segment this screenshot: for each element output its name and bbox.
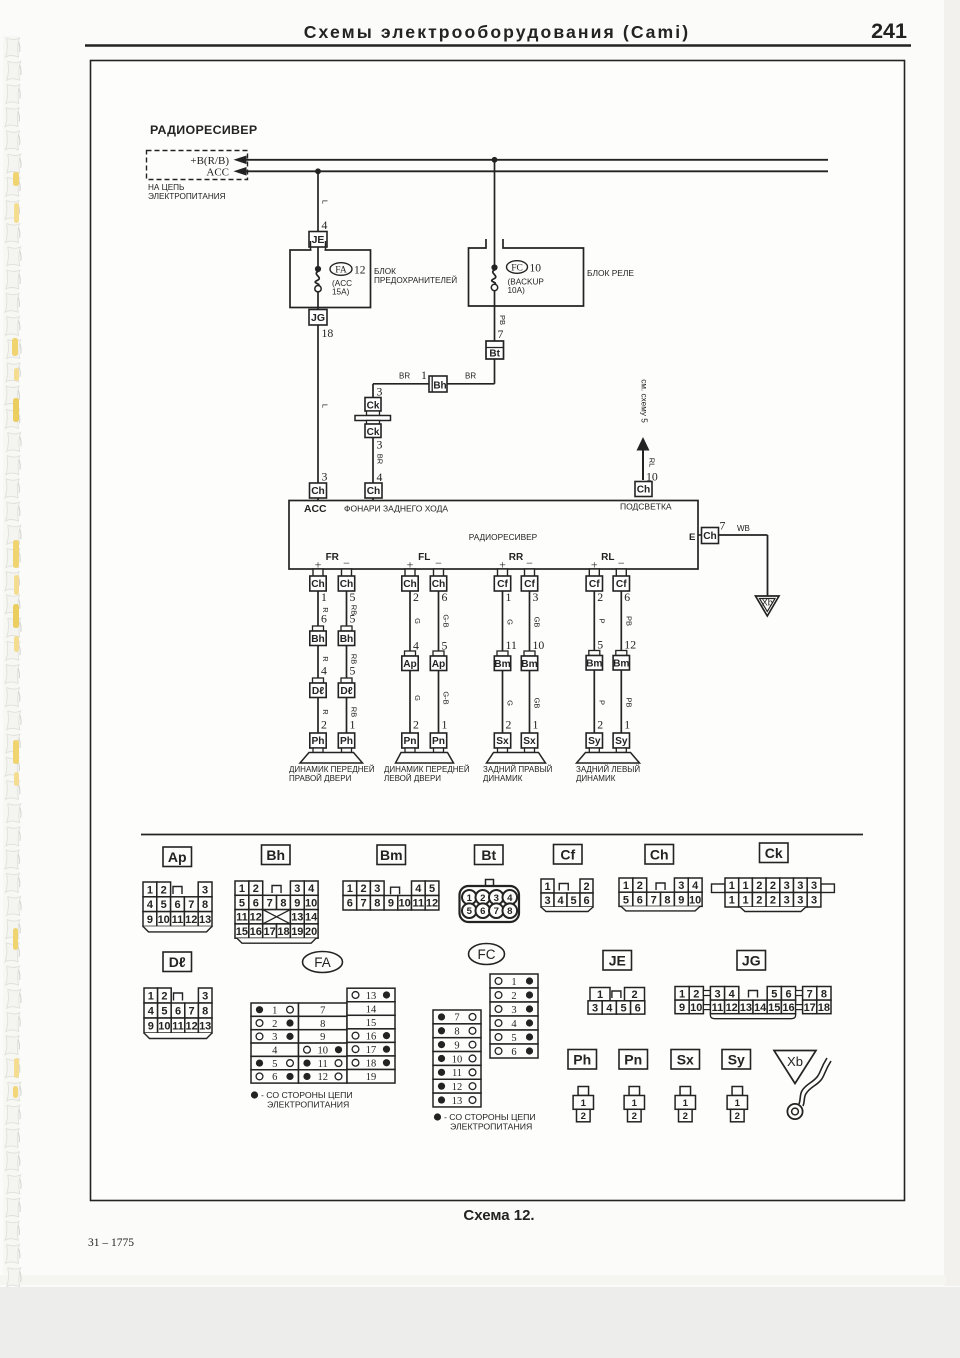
- connector chart Ch label: [645, 845, 674, 865]
- svg-text:8: 8: [507, 906, 513, 917]
- svg-text:8: 8: [454, 1027, 459, 1038]
- svg-text:1: 1: [623, 880, 629, 892]
- svg-text:1: 1: [679, 988, 685, 1000]
- svg-text:7: 7: [720, 519, 726, 533]
- label speaker FR: [289, 765, 375, 783]
- svg-text:3: 3: [374, 883, 380, 895]
- svg-text:1: 1: [735, 1098, 741, 1109]
- svg-text:ФОНАРИ ЗАДНЕГО ХОДА: ФОНАРИ ЗАДНЕГО ХОДА: [344, 504, 448, 514]
- svg-text:BR: BR: [399, 372, 410, 381]
- connector chart Bt label: [475, 845, 504, 865]
- svg-text:3: 3: [784, 895, 790, 907]
- channel FL wires: [410, 569, 439, 753]
- svg-text:2: 2: [597, 718, 603, 732]
- label ACC 15A: [332, 279, 352, 297]
- svg-text:11: 11: [452, 1068, 462, 1079]
- pin 4 of Ch backup: [377, 470, 383, 484]
- svg-text:PB: PB: [498, 315, 507, 325]
- svg-text:Sx: Sx: [496, 736, 509, 747]
- fuse chart FC grid: [433, 974, 538, 1107]
- channel FR wires: [318, 569, 347, 753]
- svg-text:11: 11: [236, 912, 248, 924]
- svg-text:RL: RL: [648, 458, 657, 468]
- svg-text:12: 12: [452, 1082, 463, 1093]
- connector chart Bm label: [377, 845, 406, 865]
- svg-text:3: 3: [811, 880, 817, 892]
- svg-text:2: 2: [583, 881, 589, 893]
- svg-text:2: 2: [756, 880, 762, 892]
- svg-text:JG: JG: [311, 312, 325, 324]
- svg-text:12: 12: [624, 638, 636, 652]
- wire ground run: [719, 535, 768, 596]
- svg-text:3: 3: [533, 590, 539, 604]
- svg-text:1: 1: [467, 893, 473, 904]
- svg-text:GB: GB: [533, 617, 542, 628]
- svg-text:3: 3: [494, 893, 499, 904]
- svg-text:18: 18: [277, 926, 289, 938]
- connector chart Bh pin grid: [235, 881, 318, 943]
- label rear lamps: [344, 504, 448, 514]
- pin 18 of JG: [322, 326, 334, 340]
- svg-text:Sy: Sy: [588, 736, 601, 747]
- speaker RL symbol: [577, 753, 640, 764]
- power source dashed box: [147, 151, 248, 180]
- connector chart JG pin grid: [675, 987, 831, 1019]
- pin 1 of Bh: [421, 368, 427, 382]
- wire ACC drop to fuse JE: [317, 171, 319, 232]
- svg-text:FA: FA: [335, 266, 347, 276]
- svg-text:Bh: Bh: [266, 847, 285, 863]
- connector Cf pair at RR output: [494, 569, 537, 591]
- pins 2 1 of Ph FR: [321, 718, 356, 732]
- svg-text:ACC: ACC: [206, 167, 229, 179]
- fuse chart FC label: [469, 944, 505, 965]
- channel FR label: [315, 552, 351, 572]
- svg-text:R: R: [321, 709, 330, 715]
- svg-text:12: 12: [726, 1002, 738, 1014]
- svg-text:10: 10: [452, 1054, 463, 1065]
- connector chart Pn pins: [624, 1087, 644, 1123]
- svg-text:2: 2: [756, 895, 762, 907]
- svg-text:4: 4: [729, 988, 736, 1000]
- header rule: [85, 44, 911, 46]
- svg-text:3: 3: [202, 884, 208, 896]
- svg-text:6: 6: [635, 1002, 641, 1014]
- label FC 10: [507, 261, 542, 275]
- svg-text:3: 3: [784, 880, 790, 892]
- connector chart Sy label: [722, 1050, 751, 1070]
- svg-text:13: 13: [199, 914, 211, 926]
- wire ACC bus: [234, 167, 829, 176]
- connector Ch pair at FL output: [402, 569, 447, 591]
- svg-text:20: 20: [305, 926, 317, 938]
- wire Bh to Ck: [373, 384, 429, 398]
- label E pin: [689, 532, 695, 543]
- connector JE inline: [309, 232, 327, 248]
- pins 2 1 of Sx RR: [506, 718, 539, 732]
- svg-text:ЭЛЕКТРОПИТАНИЯ: ЭЛЕКТРОПИТАНИЯ: [450, 1122, 532, 1132]
- svg-text:Bh: Bh: [311, 634, 325, 645]
- wire colors R RB FR: [321, 605, 359, 615]
- svg-text:Ph: Ph: [311, 736, 324, 747]
- svg-text:Ap: Ap: [403, 659, 417, 670]
- svg-text:5: 5: [350, 612, 356, 626]
- svg-text:9: 9: [148, 1020, 154, 1032]
- svg-text:6: 6: [480, 906, 485, 917]
- label ACC inside block: [304, 504, 327, 515]
- pin 3 of Ch ACC: [322, 470, 328, 484]
- svg-text:1: 1: [148, 990, 154, 1002]
- svg-text:JE: JE: [312, 234, 325, 246]
- svg-text:−: −: [435, 556, 442, 570]
- svg-text:G: G: [506, 619, 515, 625]
- svg-text:Ch: Ch: [650, 846, 669, 862]
- connector chart JE pin grid: [588, 988, 645, 1015]
- svg-text:Ck: Ck: [367, 401, 380, 412]
- pin 3 upper Ck: [377, 385, 383, 399]
- svg-text:16: 16: [250, 926, 262, 938]
- svg-text:1: 1: [544, 881, 550, 893]
- svg-text:Xb: Xb: [787, 1054, 803, 1069]
- svg-text:Bh: Bh: [340, 634, 354, 645]
- connector chart Pn label: [619, 1050, 648, 1070]
- wire through fuse block: [317, 247, 319, 310]
- svg-text:Bt: Bt: [489, 349, 500, 360]
- svg-text:Bm: Bm: [521, 659, 537, 670]
- connector Ch at illumination output: [635, 482, 652, 497]
- svg-text:8: 8: [664, 894, 670, 906]
- connector Ph pair at speaker FR: [310, 733, 355, 753]
- svg-text:3: 3: [797, 895, 803, 907]
- svg-text:ПРАВОЙ ДВЕРИ: ПРАВОЙ ДВЕРИ: [289, 774, 352, 783]
- svg-text:14: 14: [366, 1004, 377, 1015]
- svg-text:12: 12: [354, 265, 366, 277]
- pins 5 12 of Bm RL: [597, 638, 636, 652]
- svg-text:L: L: [321, 200, 330, 204]
- svg-text:6: 6: [347, 898, 353, 910]
- connector chart Sx pins: [675, 1087, 695, 1123]
- svg-text:2: 2: [631, 989, 637, 1001]
- svg-text:14: 14: [754, 1002, 767, 1014]
- svg-text:1: 1: [581, 1098, 587, 1109]
- svg-text:Схема 12.: Схема 12.: [463, 1207, 534, 1224]
- node ACC branch junction: [315, 168, 321, 174]
- svg-text:10: 10: [690, 1002, 702, 1014]
- svg-text:GB: GB: [533, 698, 542, 709]
- svg-text:10: 10: [530, 263, 542, 275]
- svg-text:3: 3: [272, 1032, 277, 1043]
- svg-text:9: 9: [320, 1032, 325, 1043]
- svg-text:G: G: [413, 695, 422, 701]
- svg-text:8: 8: [821, 988, 827, 1000]
- svg-text:Cf: Cf: [524, 579, 535, 590]
- svg-text:7: 7: [498, 327, 504, 341]
- svg-text:Cf: Cf: [616, 579, 627, 590]
- svg-text:13: 13: [740, 1002, 752, 1014]
- svg-text:10: 10: [318, 1046, 329, 1057]
- pins 2 6 of Cf RL: [597, 590, 630, 604]
- svg-text:2: 2: [272, 1019, 277, 1030]
- svg-text:5: 5: [570, 895, 576, 907]
- svg-text:2: 2: [360, 883, 366, 895]
- pin 7 of Ch ground: [720, 519, 726, 533]
- svg-text:FR: FR: [326, 552, 340, 563]
- svg-text:16: 16: [782, 1002, 794, 1014]
- svg-text:ПРЕДОХРАНИТЕЛЕЙ: ПРЕДОХРАНИТЕЛЕЙ: [374, 274, 457, 285]
- svg-text:3: 3: [714, 988, 720, 1000]
- wire color WB: [737, 524, 750, 533]
- connector chart Bh label: [262, 845, 291, 865]
- fuse chart FA grid: [251, 988, 395, 1083]
- connector Ch pair at FR output: [310, 569, 355, 591]
- svg-text:17: 17: [264, 926, 276, 938]
- svg-text:Dℓ: Dℓ: [340, 686, 352, 697]
- svg-text:4: 4: [692, 880, 699, 892]
- svg-text:3: 3: [811, 895, 817, 907]
- svg-text:2: 2: [321, 718, 327, 732]
- connector Ch at backup input: [365, 483, 382, 498]
- svg-text:RL: RL: [601, 552, 614, 563]
- svg-text:1: 1: [347, 883, 353, 895]
- caption Schema 12: [463, 1207, 534, 1224]
- svg-text:ЗАДНИЙ ЛЕВЫЙ: ЗАДНИЙ ЛЕВЫЙ: [576, 765, 640, 774]
- connector chart Ck label: [760, 843, 789, 863]
- svg-text:Ch: Ch: [367, 486, 381, 497]
- svg-text:18: 18: [818, 1002, 830, 1014]
- connector Sy pair at speaker RL: [586, 733, 629, 753]
- wire color L (lower): [321, 404, 330, 408]
- svg-text:10: 10: [399, 898, 411, 910]
- arrow to schema 5: [637, 437, 650, 480]
- ground chart Xb: [774, 1051, 816, 1084]
- svg-text:5: 5: [161, 899, 167, 911]
- connector Bh inline: [429, 376, 447, 392]
- svg-text:Sy: Sy: [615, 736, 628, 747]
- wire color PB: [498, 315, 507, 325]
- svg-text:ЛЕВОЙ ДВЕРИ: ЛЕВОЙ ДВЕРИ: [384, 774, 441, 783]
- svg-text:1: 1: [729, 880, 735, 892]
- svg-text:Bm: Bm: [380, 847, 403, 863]
- channel RR label: [499, 552, 533, 572]
- svg-text:12: 12: [185, 914, 197, 926]
- svg-text:6: 6: [785, 988, 791, 1000]
- ground Xb: [756, 596, 780, 616]
- svg-text:11: 11: [172, 1020, 184, 1032]
- svg-text:БЛОК РЕЛЕ: БЛОК РЕЛЕ: [587, 268, 634, 278]
- svg-text:Ch: Ch: [311, 486, 325, 497]
- svg-text:см. схему 5: см. схему 5: [640, 379, 649, 423]
- svg-text:16: 16: [366, 1031, 377, 1042]
- svg-text:13: 13: [199, 1020, 211, 1032]
- svg-text:1: 1: [533, 718, 539, 732]
- svg-text:15: 15: [366, 1018, 377, 1029]
- svg-text:G: G: [413, 618, 422, 624]
- svg-text:6: 6: [321, 612, 327, 626]
- svg-text:13: 13: [366, 991, 377, 1002]
- pins 4 5 of Dℓ FR: [321, 664, 356, 678]
- svg-text:1: 1: [511, 977, 516, 988]
- connector Dℓ pair inline FR: [310, 678, 355, 698]
- connector chart Dl label: [163, 952, 192, 972]
- svg-text:ЗАДНИЙ ПРАВЫЙ: ЗАДНИЙ ПРАВЫЙ: [483, 765, 553, 774]
- svg-text:5: 5: [272, 1059, 277, 1070]
- svg-text:4: 4: [511, 1019, 517, 1030]
- svg-text:3: 3: [322, 470, 328, 484]
- connector Ap pair inline FL: [402, 651, 447, 671]
- svg-text:Схемы электрооборудования (Cam: Схемы электрооборудования (Cami): [304, 22, 691, 42]
- svg-text:P: P: [597, 700, 606, 705]
- svg-text:18: 18: [322, 326, 334, 340]
- svg-text:1: 1: [506, 590, 512, 604]
- svg-text:G: G: [506, 700, 515, 706]
- wire +B drop to relay block: [494, 160, 496, 266]
- svg-text:9: 9: [294, 897, 300, 909]
- svg-text:РАДИОРЕСИВЕР: РАДИОРЕСИВЕР: [150, 123, 257, 137]
- svg-text:Ck: Ck: [765, 845, 783, 861]
- svg-text:5: 5: [350, 664, 356, 678]
- svg-text:1: 1: [421, 368, 427, 382]
- svg-text:Cf: Cf: [497, 579, 508, 590]
- svg-text:5: 5: [597, 638, 603, 652]
- svg-text:13: 13: [291, 912, 303, 924]
- svg-text:Ch: Ch: [432, 579, 446, 590]
- svg-text:2: 2: [683, 1111, 688, 1122]
- svg-text:10: 10: [533, 638, 545, 652]
- svg-text:15A): 15A): [332, 288, 350, 297]
- connector chart Ap pin grid: [143, 882, 212, 932]
- svg-text:7: 7: [807, 988, 813, 1000]
- svg-text:JE: JE: [609, 952, 626, 968]
- svg-text:Bm: Bm: [613, 658, 629, 669]
- svg-text:11: 11: [712, 1002, 724, 1014]
- connector Bh pair inline FR: [310, 626, 355, 646]
- wire colors G G-B lower FL: [413, 691, 451, 704]
- svg-text:1: 1: [742, 895, 748, 907]
- svg-text:7: 7: [267, 897, 273, 909]
- svg-text:5: 5: [511, 1033, 516, 1044]
- svg-text:1: 1: [321, 590, 327, 604]
- svg-text:3: 3: [678, 880, 684, 892]
- pin 4 of JE: [322, 218, 328, 232]
- svg-text:4: 4: [507, 893, 513, 904]
- svg-text:ЭЛЕКТРОПИТАНИЯ: ЭЛЕКТРОПИТАНИЯ: [148, 192, 226, 201]
- svg-text:RB: RB: [350, 707, 359, 717]
- connector chart Sy pins: [727, 1087, 747, 1123]
- svg-text:3: 3: [294, 883, 300, 895]
- label see schema 5: [640, 379, 649, 423]
- svg-text:241: 241: [871, 19, 907, 43]
- svg-text:Bm: Bm: [494, 659, 510, 670]
- svg-text:3: 3: [202, 990, 208, 1002]
- diagram frame: [91, 61, 905, 1201]
- wire Bt to Bh: [447, 359, 495, 384]
- svg-text:FC: FC: [511, 264, 523, 274]
- svg-text:8: 8: [202, 1005, 208, 1017]
- svg-text:10: 10: [158, 914, 170, 926]
- wire Ck to radio backup lamps: [372, 438, 374, 502]
- chart separator rule: [141, 834, 863, 836]
- svg-text:6: 6: [253, 897, 259, 909]
- label relay block: [587, 268, 634, 278]
- svg-text:1: 1: [597, 989, 603, 1001]
- svg-text:1: 1: [624, 718, 630, 732]
- svg-text:1: 1: [742, 880, 748, 892]
- svg-text:9: 9: [679, 1002, 685, 1014]
- svg-text:12: 12: [318, 1072, 329, 1083]
- pins 4 5 of Ap FL: [413, 639, 448, 653]
- label ACC: [206, 167, 229, 179]
- svg-text:2: 2: [632, 1111, 637, 1122]
- svg-text:11: 11: [172, 914, 184, 926]
- svg-text:13: 13: [452, 1096, 463, 1107]
- svg-text:7: 7: [189, 1005, 195, 1017]
- svg-text:G-B: G-B: [442, 691, 451, 704]
- svg-text:БЛОК: БЛОК: [374, 267, 396, 276]
- svg-text:Pn: Pn: [624, 1051, 642, 1067]
- svg-text:12: 12: [185, 1020, 197, 1032]
- svg-text:10: 10: [158, 1020, 170, 1032]
- svg-text:E: E: [689, 532, 695, 543]
- connector Pn pair at speaker FL: [402, 733, 447, 753]
- connector chart Bm pin grid: [343, 881, 439, 910]
- connector Sx pair at speaker RR: [494, 733, 537, 753]
- svg-text:6: 6: [583, 895, 589, 907]
- wire colors R RB lower FR: [321, 707, 359, 717]
- svg-text:Ch: Ch: [403, 579, 417, 590]
- svg-text:Xb: Xb: [762, 598, 773, 608]
- pin 10 of Ch illumination: [646, 470, 658, 484]
- node +B branch junction: [492, 157, 498, 163]
- label illumination: [620, 502, 672, 512]
- connector chart JE label: [603, 951, 632, 971]
- svg-text:3: 3: [797, 880, 803, 892]
- relay block box FC: [469, 239, 584, 306]
- svg-text:18: 18: [366, 1059, 377, 1070]
- svg-text:2: 2: [637, 880, 643, 892]
- svg-text:L: L: [321, 404, 330, 408]
- svg-text:Ch: Ch: [637, 485, 651, 496]
- label BACKUP 10A: [508, 278, 545, 296]
- svg-text:G-B: G-B: [442, 614, 451, 627]
- svg-text:5: 5: [771, 988, 777, 1000]
- svg-text:11: 11: [506, 638, 517, 652]
- connector chart Ap label: [163, 847, 192, 867]
- svg-text:ДИНАМИК: ДИНАМИК: [576, 774, 616, 783]
- svg-text:3: 3: [377, 385, 383, 399]
- svg-text:РАДИОРЕСИВЕР: РАДИОРЕСИВЕР: [469, 532, 538, 542]
- svg-text:2: 2: [693, 988, 699, 1000]
- svg-text:1: 1: [147, 884, 153, 896]
- svg-text:Ck: Ck: [367, 427, 380, 438]
- svg-text:31 – 1775: 31 – 1775: [88, 1237, 134, 1249]
- wire color BR right: [465, 372, 476, 381]
- svg-text:7: 7: [320, 1005, 325, 1016]
- label radio receiver inside: [469, 532, 538, 542]
- svg-text:JG: JG: [742, 952, 761, 968]
- svg-text:10: 10: [305, 897, 317, 909]
- wire JG to radio ACC: [317, 325, 319, 501]
- svg-text:5: 5: [623, 894, 629, 906]
- svg-text:−: −: [618, 556, 625, 570]
- svg-text:6: 6: [175, 1005, 181, 1017]
- svg-text:2: 2: [581, 1111, 586, 1122]
- connector chart Ch pin grid: [619, 878, 702, 911]
- svg-text:- СО СТОРОНЫ ЦЕПИ: - СО СТОРОНЫ ЦЕПИ: [444, 1112, 536, 1122]
- svg-text:4: 4: [308, 883, 315, 895]
- svg-text:2: 2: [480, 893, 485, 904]
- pins 1 5 of Ch FR: [321, 590, 356, 604]
- pins 6 5 of Bh FR: [321, 612, 356, 626]
